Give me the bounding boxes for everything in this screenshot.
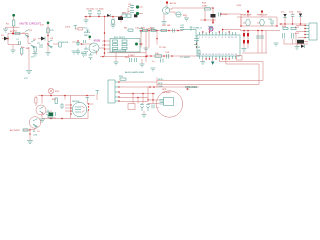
capacitor C19 (256, 36, 264, 38)
diode D5 dark (118, 17, 123, 20)
svg-text:C6 100u: C6 100u (86, 9, 95, 11)
ground (144, 48, 149, 51)
svg-text:C7 100u: C7 100u (96, 9, 105, 11)
ground (111, 25, 116, 28)
capacitor C10 electrolytic (135, 28, 154, 34)
pin junction dots bottom (205, 58, 206, 59)
wire rail (237, 13, 277, 27)
capacitor C2 (37, 43, 43, 47)
pin junction dots top (202, 31, 203, 32)
node VM (65, 26, 82, 31)
capacitor C8 + output flag (128, 4, 143, 9)
capacitor C20 (268, 19, 274, 26)
power flag (96, 91, 100, 95)
wire rail (279, 23, 307, 25)
wire routing from bottom pins to speaker bus (219, 59, 263, 85)
svg-text:SPK: SPK (162, 89, 167, 91)
junction (240, 25, 242, 27)
diode D4 dark (134, 14, 137, 17)
wire (80, 43, 92, 45)
svg-text:DRV: DRV (84, 35, 89, 37)
wire bottom (100, 31, 146, 62)
ground (140, 59, 145, 67)
svg-text:MUTE: MUTE (62, 42, 69, 44)
svg-text:12V: 12V (40, 25, 44, 27)
ground (242, 49, 247, 52)
small text bottom of relay area: resistor R23 (125, 57, 130, 59)
svg-text:100K: 100K (202, 6, 208, 8)
junction (85, 16, 87, 18)
wire row (141, 30, 183, 32)
transistor Q5 (89, 43, 105, 55)
wire to ground (28, 47, 30, 70)
resistor R15 (243, 33, 249, 36)
red box component (128, 104, 135, 110)
resistor R4 (47, 28, 55, 33)
ground (72, 51, 77, 54)
resistor R24 vertical (21, 47, 23, 57)
resistor R16 (243, 40, 249, 43)
svg-text:8R 30W: 8R 30W (163, 92, 172, 94)
wires above IC (from cluster E rail) (200, 3, 241, 30)
svg-text:10K: 10K (155, 53, 159, 55)
lamp LP1 (48, 88, 60, 94)
resistor R13 (155, 53, 162, 57)
wire (240, 31, 280, 54)
capacitor C16 (81, 40, 86, 45)
wire (41, 112, 44, 115)
capacitor C9 + output flag (128, 7, 143, 16)
wire (12, 45, 14, 50)
ground (3, 29, 8, 32)
svg-text:PWR AMP: PWR AMP (241, 14, 252, 17)
wire down (30, 128, 35, 140)
node arrow (212, 22, 214, 25)
junction (7, 38, 9, 40)
junction (41, 95, 43, 97)
capacitor C5 electrolytic (84, 47, 90, 57)
ground (39, 113, 45, 123)
power flag V1 (12, 14, 15, 20)
resistor R7 vertical (112, 17, 114, 26)
wires from connector (119, 82, 199, 102)
transistor Q8 (29, 117, 41, 129)
capacitor C4 (76, 49, 85, 56)
power flag green (211, 59, 214, 65)
capacitor C22 (283, 33, 285, 39)
wire from top pin right (223, 30, 241, 33)
node AC (166, 2, 176, 6)
junction (102, 56, 104, 58)
ground (274, 43, 279, 46)
ground (295, 44, 300, 50)
junction (47, 43, 49, 45)
node AC INPUT (10, 129, 30, 132)
power flag (89, 36, 92, 41)
wire bottom rail (42, 110, 88, 119)
wire down-left (105, 17, 122, 57)
resistor R18 (282, 26, 288, 30)
capacitor C30 (152, 59, 163, 64)
connector CON1 (304, 23, 317, 40)
capacitor C13 (194, 39, 199, 48)
svg-text:TONE_O: TONE_O (193, 28, 202, 30)
svg-text:+35V: +35V (236, 5, 242, 7)
long bus wires (157, 78, 263, 88)
capacitor C18 (130, 58, 132, 62)
bottom side: ground (200, 59, 205, 65)
junction (156, 38, 158, 40)
svg-text:GND: GND (158, 86, 163, 88)
svg-text:TP 2W: TP 2W (159, 47, 167, 49)
wire lower row (147, 55, 199, 57)
junction (104, 32, 106, 34)
IC U1 (194, 35, 240, 56)
power flag V2 (40, 22, 49, 27)
svg-text:4148: 4148 (223, 14, 229, 16)
wire top (38, 94, 97, 104)
resistor R19 (291, 28, 296, 30)
ground (33, 54, 38, 57)
wire main rail (84, 16, 122, 18)
bottom pins (200, 56, 236, 59)
resistor R22 (23, 129, 28, 131)
capacitor C23b (292, 33, 294, 39)
connector CON2 (108, 80, 120, 103)
top pins (200, 32, 236, 35)
varistor RV1 (176, 12, 188, 17)
resistor R11 (150, 28, 156, 32)
resistor R10 (141, 28, 148, 32)
label (33, 131, 40, 137)
wire loop (8, 34, 28, 45)
resistor R12 (161, 29, 167, 31)
resistor R21 (52, 98, 57, 104)
wire (34, 47, 36, 54)
resistor R2 (14, 31, 20, 35)
ground (84, 17, 89, 24)
wire (169, 8, 213, 14)
svg-text:K DRV: K DRV (128, 55, 135, 57)
transistor Q6 (284, 33, 308, 44)
capacitor C31 (152, 105, 159, 110)
diode D7 (281, 12, 287, 25)
wire to right rail (221, 14, 241, 26)
diode D8 (297, 12, 302, 25)
ground (184, 16, 189, 21)
capacitor C17 electrolytic (89, 53, 93, 60)
svg-text:PWR SUP: PWR SUP (257, 15, 268, 17)
inductor L1 (243, 19, 250, 26)
capacitor C19b (135, 58, 137, 62)
wire into relay (102, 41, 110, 49)
capacitor C6 electrolytic (86, 9, 95, 17)
resistor R20 (119, 76, 126, 80)
junction square (247, 11, 249, 13)
svg-text:SPEAKER: SPEAKER (185, 85, 197, 89)
speaker LS1 (147, 89, 182, 117)
capacitor C7 electrolytic (96, 9, 105, 17)
capacitor C27 electrolytic (46, 110, 52, 119)
ground (49, 110, 54, 119)
ground (151, 68, 156, 71)
capacitor C25 (60, 103, 64, 109)
wire (47, 26, 49, 52)
routing stub box (237, 56, 243, 61)
capacitor C15 (196, 47, 201, 56)
power flag (190, 27, 193, 31)
junction (132, 93, 134, 95)
node mark right of speaker (186, 88, 189, 90)
svg-text:MUTE: MUTE (84, 32, 91, 34)
resistor R26 red (35, 96, 37, 107)
resistor R5 (53, 42, 61, 47)
svg-text:AUDIO AMPLIFIER: AUDIO AMPLIFIER (125, 71, 144, 74)
ground (162, 14, 167, 25)
svg-text:VCC: VCC (83, 28, 88, 30)
junction (29, 129, 31, 131)
capacitor C1 (16, 39, 21, 45)
capacitor C28 (48, 112, 56, 118)
wire verticals (133, 87, 153, 104)
power flag (86, 98, 89, 105)
svg-text:REG: REG (122, 13, 127, 15)
ground (114, 62, 119, 65)
svg-text:12V0: 12V0 (65, 27, 71, 29)
ground (26, 71, 32, 74)
capacitor C14 (165, 52, 170, 59)
wire down (141, 31, 157, 48)
svg-text:12V: 12V (24, 78, 28, 80)
ground (27, 141, 33, 144)
junction (12, 33, 14, 35)
transistor Q1 (22, 30, 33, 38)
diode D9 (301, 45, 304, 48)
transistor Q2 (28, 34, 37, 49)
diode D2 (38, 37, 45, 41)
svg-text:TA7205: TA7205 (72, 100, 80, 103)
relay RY1 (110, 37, 140, 52)
capacitor C23 electrolytic (140, 103, 144, 111)
resistor R1 vertical (6, 20, 15, 26)
wire to connector (296, 26, 305, 38)
diode D6 (211, 14, 216, 18)
svg-text:MUTE CIRCUIT: MUTE CIRCUIT (20, 22, 42, 26)
power flag (83, 28, 89, 34)
junction (140, 30, 142, 32)
label (84, 32, 91, 37)
transistor Q7 (36, 105, 46, 115)
ground (81, 54, 86, 57)
ground (142, 111, 147, 118)
capacitor C11 (173, 29, 175, 33)
diode D3 (107, 14, 110, 17)
bottom pin numbers (199, 54, 238, 56)
svg-text:4558: 4558 (94, 39, 101, 43)
diode D1 (1, 35, 8, 41)
capacitor C3 (76, 40, 84, 46)
wire into IC (65, 96, 94, 119)
transistor Q4 (162, 7, 169, 14)
wire relay bottom (107, 44, 146, 62)
inductor L2 (257, 19, 264, 26)
node MUTE (62, 42, 76, 44)
crystal Y1 above IC (209, 27, 213, 31)
resistor R3 vertical (34, 47, 36, 52)
svg-text:TO SPKR: TO SPKR (180, 57, 190, 59)
top pin numbers (199, 37, 238, 39)
ground (11, 50, 16, 53)
wire (166, 4, 168, 8)
capacitor C29 (219, 13, 221, 17)
svg-text:R17 10K: R17 10K (162, 25, 171, 27)
junction (212, 7, 214, 9)
resistor R9 (124, 28, 133, 32)
wire (6, 26, 20, 34)
net wire TONE (183, 28, 202, 38)
svg-text:AC IN: AC IN (170, 2, 176, 5)
ground (208, 27, 213, 30)
ground (46, 53, 51, 56)
capacitor C21 (289, 12, 294, 25)
junction (47, 35, 49, 37)
svg-text:AC INPUT: AC INPUT (10, 129, 21, 132)
capacitor C24 electrolytic (146, 103, 150, 111)
net label stack (158, 79, 164, 88)
capacitor C12 (180, 25, 185, 31)
regulator text block U2 (122, 13, 131, 18)
transistor Q3 (48, 38, 54, 48)
IC U3 (70, 100, 89, 117)
svg-text:47K: 47K (50, 30, 54, 32)
